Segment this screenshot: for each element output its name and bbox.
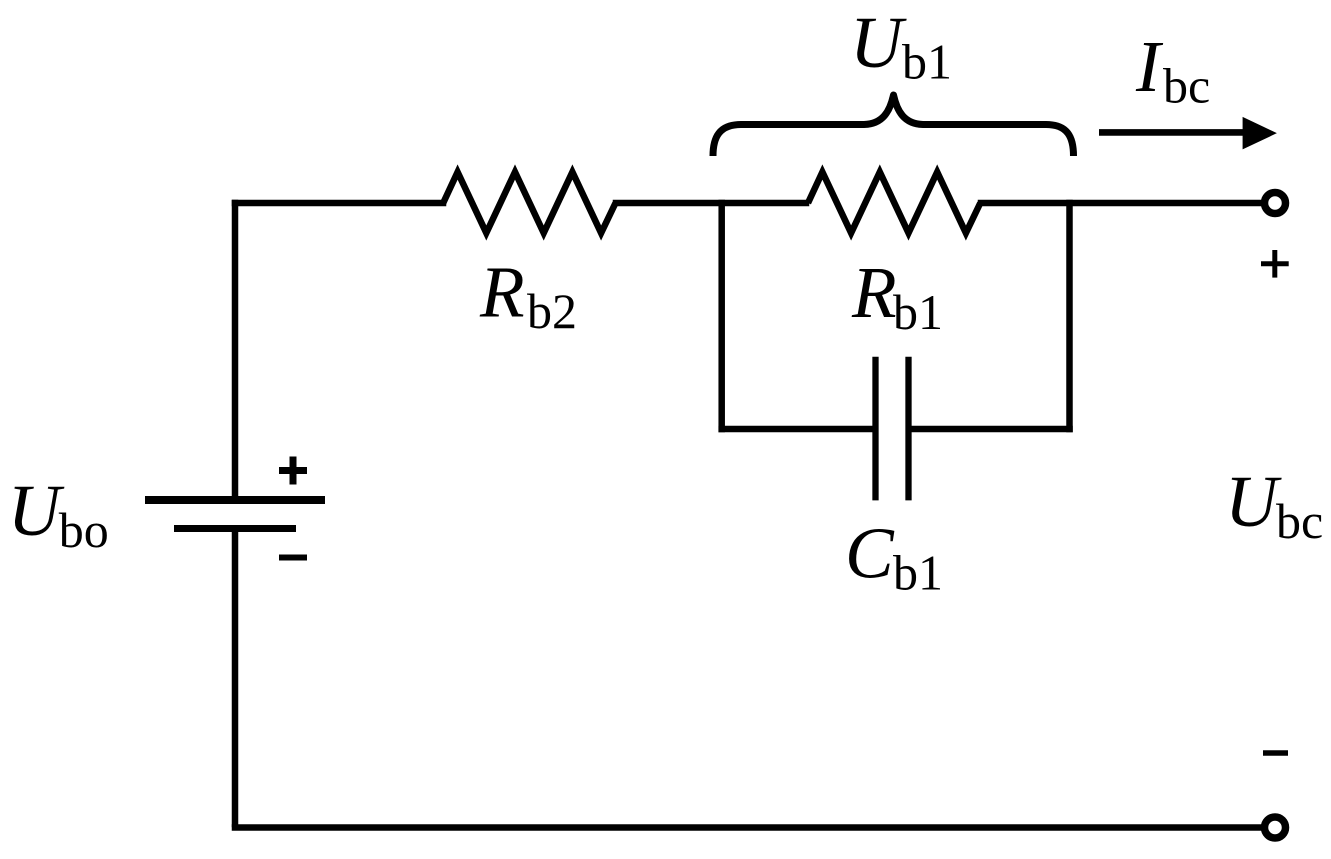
svg-text:bc: bc bbox=[1163, 58, 1210, 114]
svg-text:b2: b2 bbox=[527, 283, 577, 339]
svg-text:bo: bo bbox=[59, 502, 109, 558]
svg-text:b1: b1 bbox=[893, 284, 943, 340]
svg-text:U: U bbox=[850, 2, 907, 83]
svg-text:U: U bbox=[1225, 461, 1282, 542]
svg-text:U: U bbox=[8, 470, 65, 551]
svg-text:R: R bbox=[479, 252, 525, 333]
svg-text:b1: b1 bbox=[902, 34, 952, 90]
svg-text:R: R bbox=[851, 252, 897, 333]
svg-text:bc: bc bbox=[1276, 493, 1323, 549]
svg-text:C: C bbox=[845, 513, 895, 594]
svg-text:I: I bbox=[1135, 26, 1164, 107]
svg-text:b1: b1 bbox=[893, 545, 943, 601]
